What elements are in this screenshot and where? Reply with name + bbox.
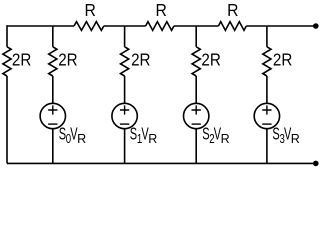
wire node 4 from top rail to resistor (266, 26, 268, 47)
node terminal dot bottom right (313, 161, 319, 167)
svg-text:2R: 2R (273, 49, 292, 69)
resistor R7 (2R) zigzag node 3 (192, 47, 200, 76)
wire bottom rail (7, 162, 316, 164)
voltage source V4 (S3VR) circle (254, 103, 279, 128)
svg-text:2R: 2R (201, 49, 220, 69)
resistor R5 (2R) zigzag node 1 (49, 47, 57, 76)
voltage source V2 plus sign (120, 105, 129, 114)
resistor R1 (R) zigzag (74, 22, 104, 31)
svg-text:R: R (221, 131, 230, 146)
resistor R2 (R) zigzag (146, 22, 174, 31)
wire node 2 from top rail to resistor (124, 26, 126, 47)
node terminal dot top right (313, 23, 319, 29)
voltage source V3 minus sign (192, 123, 201, 125)
svg-text:2R: 2R (12, 49, 31, 69)
wire node 2 source to bottom rail (124, 129, 126, 164)
wire node 4 source to bottom rail (266, 129, 268, 164)
wire top rail segment 3 (174, 25, 219, 27)
svg-text:S: S (130, 125, 137, 144)
wire node 3 source to bottom rail (195, 129, 197, 164)
label S1VR for source V2 (130, 125, 157, 146)
voltage source V2 (S1VR) circle (112, 103, 137, 128)
wire node 3 resistor to source (195, 76, 197, 103)
svg-text:S: S (272, 125, 279, 144)
wire top rail segment 2 (104, 25, 146, 27)
wire left column top (6, 25, 8, 47)
svg-text:R: R (77, 131, 86, 146)
label S2VR for source V3 (202, 125, 229, 146)
svg-text:R: R (227, 0, 238, 20)
resistor R8 (2R) zigzag node 4 (263, 47, 271, 76)
svg-text:R: R (148, 131, 157, 146)
voltage source V2 minus sign (120, 123, 129, 125)
resistor R3 (R) zigzag (218, 22, 246, 31)
svg-text:R: R (156, 0, 167, 20)
svg-text:S: S (59, 125, 66, 144)
wire top rail segment 4 (246, 25, 315, 27)
svg-text:R: R (85, 0, 96, 20)
voltage source V3 plus sign (192, 105, 201, 114)
wire node 1 from top rail to resistor (52, 26, 54, 47)
wire node 4 resistor to source (266, 76, 268, 103)
resistor R6 (2R) zigzag node 2 (121, 47, 129, 76)
svg-text:S: S (202, 125, 209, 144)
voltage source V1 plus sign (48, 105, 57, 114)
label S3VR for source V4 (272, 125, 299, 146)
voltage source V4 plus sign (262, 105, 271, 114)
svg-text:R: R (291, 131, 300, 146)
svg-text:2R: 2R (58, 49, 77, 69)
wire left column bottom (6, 76, 8, 163)
wire node 1 source to bottom rail (52, 129, 54, 164)
voltage source V1 minus sign (48, 123, 57, 125)
voltage source V1 (S0VR) circle (40, 103, 65, 128)
svg-text:2R: 2R (131, 49, 150, 69)
wire node 3 from top rail to resistor (195, 26, 197, 47)
wire node 1 resistor to source (52, 76, 54, 103)
wire top rail segment 1 (7, 25, 74, 27)
voltage source V4 minus sign (262, 123, 271, 125)
resistor R4 (2R) leftmost zigzag (3, 47, 11, 76)
wire node 2 resistor to source (124, 76, 126, 103)
voltage source V3 (S2VR) circle (184, 103, 209, 128)
label S0VR for source V1 (59, 125, 86, 146)
